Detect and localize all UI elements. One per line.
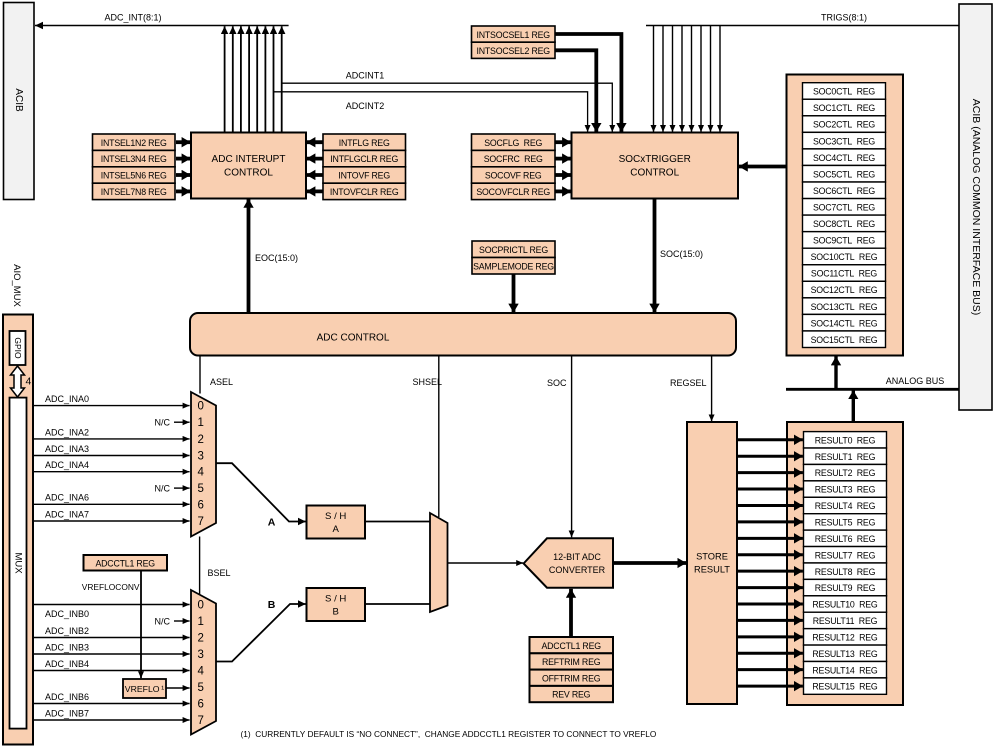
svg-text:ACIB: ACIB [13, 88, 24, 112]
wire mux A output to S/H A [216, 463, 306, 528]
register INTFLG [323, 134, 406, 150]
label VREFLOCONV [82, 582, 140, 592]
svg-text:7: 7 [198, 715, 204, 727]
wire converter to store result [613, 561, 686, 565]
register SOC6CTL [803, 182, 886, 199]
svg-text:ADC_INA2: ADC_INA2 [45, 427, 89, 437]
svg-text:SOCxTRIGGER: SOCxTRIGGER [619, 154, 691, 165]
register RESULT0 [804, 432, 887, 448]
svg-text:ADC_INT(8:1): ADC_INT(8:1) [104, 13, 161, 23]
svg-text:N/C: N/C [155, 616, 171, 626]
svg-text:CONVERTER: CONVERTER [549, 565, 606, 575]
svg-text:SOC10CTL REG: SOC10CTL REG [811, 252, 878, 262]
register SOC13CTL [803, 298, 886, 315]
wire INTSOCSEL2 to SOC trigger [555, 50, 596, 132]
wire S/H B to sample mux [365, 603, 430, 605]
wire VREFLOCONV to VREFLO [140, 571, 142, 678]
svg-text:SOC7CTL REG: SOC7CTL REG [813, 202, 875, 212]
svg-text:SOCOVF REG: SOCOVF REG [485, 171, 542, 181]
svg-text:1: 1 [198, 417, 204, 429]
register SOCOVF [472, 167, 556, 183]
wire N/C input [155, 418, 190, 428]
svg-text:SAMPLEMODE REG: SAMPLEMODE REG [473, 262, 554, 272]
svg-text:ADC_INA7: ADC_INA7 [45, 509, 89, 519]
register INTSEL7N8 [93, 183, 176, 199]
svg-text:RESULT2 REG: RESULT2 REG [815, 468, 876, 478]
svg-text:RESULT8 REG: RESULT8 REG [815, 567, 876, 577]
svg-text:0: 0 [198, 401, 204, 413]
register RESULT12 [804, 629, 887, 645]
svg-text:ADC_INB2: ADC_INB2 [45, 626, 89, 636]
ACIB right bus bar (analog common interface bus) [959, 4, 992, 410]
register SOC5CTL [803, 165, 886, 182]
register ADCCTL1 (VREFLOCONV) [84, 555, 168, 571]
svg-text:OFFTRIM REG: OFFTRIM REG [542, 673, 601, 683]
wires store result to RESULT regs [738, 440, 803, 686]
register RESULT1 [804, 448, 887, 464]
svg-text:ADC_INB4: ADC_INB4 [45, 659, 89, 669]
wire N/C input [155, 616, 190, 626]
svg-text:SOCFLG REG: SOCFLG REG [484, 138, 542, 148]
svg-text:RESULT5 REG: RESULT5 REG [815, 518, 876, 528]
register SOCPRICTL [472, 241, 555, 258]
svg-text:12-BIT ADC: 12-BIT ADC [553, 552, 601, 562]
wire mux B output to S/H B [216, 599, 306, 662]
register RESULT15 [804, 678, 887, 694]
register INTFLGCLR [323, 150, 406, 166]
svg-text:4: 4 [26, 376, 32, 388]
register INTSEL3N4 [93, 150, 176, 166]
wire SOC to converter [547, 356, 572, 538]
register SOC15CTL [803, 331, 886, 348]
svg-text:SOC8CTL REG: SOC8CTL REG [813, 219, 875, 229]
register INTSOCSEL1 [472, 26, 556, 42]
block STORE RESULT [687, 422, 737, 704]
svg-text:TRIGS(8:1): TRIGS(8:1) [821, 13, 867, 23]
svg-text:RESULT11 REG: RESULT11 REG [813, 616, 878, 626]
svg-text:SOC6CTL REG: SOC6CTL REG [813, 186, 875, 196]
wire analog bus up to SOCxCTL file [834, 356, 837, 389]
svg-text:5: 5 [198, 483, 204, 495]
svg-text:RESULT13 REG: RESULT13 REG [812, 649, 878, 659]
wire ADC_INT(8:1) [35, 13, 289, 26]
svg-text:ADC INTERUPT: ADC INTERUPT [212, 154, 286, 165]
wire N/C input [155, 484, 190, 494]
svg-text:ADC_INA6: ADC_INA6 [45, 493, 89, 503]
svg-text:6: 6 [198, 499, 204, 511]
wire ADC_INB2 input [34, 626, 190, 638]
register INTSEL1N2 [93, 134, 176, 150]
svg-text:SOC5CTL REG: SOC5CTL REG [813, 169, 875, 179]
svg-text:ADC_INA0: ADC_INA0 [45, 394, 89, 404]
register REFTRIM [530, 653, 614, 669]
svg-text:INTSEL3N4 REG: INTSEL3N4 REG [101, 154, 167, 164]
svg-text:(1) CURRENTLY DEFAULT IS “NO: (1) CURRENTLY DEFAULT IS “NO CONNECT”, C… [241, 729, 657, 739]
svg-text:ADC_INA4: ADC_INA4 [45, 460, 89, 470]
register SOCOVFCLR [472, 183, 556, 199]
register RESULT11 [804, 612, 887, 628]
svg-text:REV REG: REV REG [552, 690, 591, 700]
wire BSEL select [200, 537, 231, 595]
register SOCFLG [472, 134, 556, 150]
svg-text:INTFLG REG: INTFLG REG [339, 138, 390, 148]
svg-text:RESULT1 REG: RESULT1 REG [815, 452, 876, 462]
bidirectional arrow GPIO to MUX [11, 366, 32, 397]
svg-text:SOC(15:0): SOC(15:0) [660, 249, 703, 259]
svg-text:INTSEL1N2 REG: INTSEL1N2 REG [101, 138, 167, 148]
block S/H A [307, 506, 366, 539]
svg-text:SOC14CTL REG: SOC14CTL REG [811, 318, 878, 328]
register SOC12CTL [803, 281, 886, 298]
svg-text:CONTROL: CONTROL [630, 168, 679, 179]
svg-text:4: 4 [198, 666, 205, 678]
svg-text:ADC_INB7: ADC_INB7 [45, 708, 89, 718]
block ADC INTERUPT CONTROL [191, 133, 306, 199]
register INTSOCSEL2 [472, 42, 556, 58]
svg-text:7: 7 [198, 516, 204, 528]
svg-text:ADC CONTROL: ADC CONTROL [317, 333, 390, 344]
svg-text:REFTRIM REG: REFTRIM REG [542, 657, 601, 667]
wire SHSEL select [412, 356, 442, 518]
wire ADC_INB3 input [34, 642, 190, 654]
svg-text:ADCINT2: ADCINT2 [346, 101, 385, 111]
svg-text:2: 2 [198, 633, 204, 645]
register RESULT8 [804, 563, 887, 579]
register RESULT2 [804, 464, 887, 480]
wire SOCxCTL to SOC trigger control [739, 165, 786, 169]
wire RESULT file up to analog bus [852, 390, 855, 421]
register INTOVFCLR [323, 183, 406, 199]
svg-text:REGSEL: REGSEL [670, 378, 707, 388]
svg-text:S / H: S / H [325, 594, 346, 605]
svg-text:AIO_MUX: AIO_MUX [11, 264, 22, 307]
wire 8 interrupt lines to ADC_INT bus [225, 26, 282, 132]
register SOC3CTL [803, 132, 886, 149]
wire ADC_INA6 input [34, 493, 190, 505]
register SOC11CTL [803, 265, 886, 282]
wire S/H A to sample mux [365, 521, 430, 523]
register SOC4CTL [803, 149, 886, 166]
mux sample select (SHSEL) [430, 513, 448, 612]
svg-text:5: 5 [198, 682, 204, 694]
block S/H B [307, 588, 366, 621]
register INTOVF [323, 167, 406, 183]
wire sample mux to converter [448, 562, 524, 564]
svg-text:SOC11CTL REG: SOC11CTL REG [811, 269, 878, 279]
svg-text:STORE: STORE [696, 552, 728, 562]
svg-text:ADCCTL1 REG: ADCCTL1 REG [541, 641, 601, 651]
svg-text:ADC_INB6: ADC_INB6 [45, 692, 89, 702]
wire ADC_INA7 input [34, 509, 190, 521]
wire TRIGS(8:1) [646, 13, 959, 26]
svg-text:INTOVFCLR REG: INTOVFCLR REG [330, 187, 399, 197]
svg-text:RESULT14 REG: RESULT14 REG [812, 665, 878, 675]
register RESULT14 [804, 661, 887, 677]
svg-text:SOC15CTL REG: SOC15CTL REG [811, 335, 878, 345]
block ADC CONTROL [190, 313, 736, 356]
register RESULT3 [804, 481, 887, 497]
register OFFTRIM [530, 670, 614, 686]
svg-text:RESULT: RESULT [694, 565, 730, 575]
svg-text:ADCCTL1 REG: ADCCTL1 REG [95, 558, 155, 568]
svg-text:ACIB (ANALOG COMMON INTERFACE: ACIB (ANALOG COMMON INTERFACE BUS) [970, 99, 982, 315]
svg-text:SOCPRICTL REG: SOCPRICTL REG [479, 245, 548, 255]
svg-text:INTSOCSEL1 REG: INTSOCSEL1 REG [476, 30, 550, 40]
wire ADCINT2 [274, 92, 588, 132]
wire ANALOG BUS [786, 376, 959, 389]
svg-text:RESULT15 REG: RESULT15 REG [812, 682, 878, 692]
register SOC14CTL [803, 314, 886, 331]
svg-text:RESULT12 REG: RESULT12 REG [812, 632, 878, 642]
svg-text:SOC13CTL REG: SOC13CTL REG [811, 302, 878, 312]
svg-text:GPIO: GPIO [13, 337, 23, 359]
block GPIO [10, 331, 26, 365]
mux B (BSEL) [191, 590, 216, 735]
register REV [530, 686, 614, 702]
svg-text:N/C: N/C [155, 418, 171, 428]
svg-text:B: B [332, 607, 338, 618]
svg-text:SOC9CTL REG: SOC9CTL REG [813, 236, 875, 246]
wire ADCINT1 [282, 71, 613, 132]
register RESULT4 [804, 497, 887, 513]
register SOC7CTL [803, 199, 886, 216]
register SOC1CTL [803, 99, 886, 116]
svg-text:0: 0 [198, 600, 204, 612]
svg-text:3: 3 [198, 451, 204, 463]
register SAMPLEMODE [472, 258, 555, 275]
svg-text:A: A [268, 517, 276, 529]
svg-text:CONTROL: CONTROL [224, 168, 273, 179]
wire ADC_INA2 input [34, 427, 190, 439]
svg-text:SOC: SOC [547, 378, 567, 388]
svg-text:RESULT9 REG: RESULT9 REG [815, 583, 876, 593]
register SOCFRC [472, 150, 556, 166]
svg-text:INTSEL5N6 REG: INTSEL5N6 REG [101, 171, 167, 181]
register SOC9CTL [803, 232, 886, 249]
wire ADC_INB4 input [34, 659, 190, 671]
wire SOC(15:0) [655, 199, 704, 313]
svg-text:ADC_INB0: ADC_INB0 [45, 609, 89, 619]
wire trim regs to converter [569, 589, 573, 637]
wire ASEL select [200, 356, 233, 394]
svg-text:ASEL: ASEL [210, 377, 233, 387]
wires INTSEL regs to interrupt control [176, 142, 191, 191]
svg-text:A: A [332, 524, 339, 535]
svg-text:RESULT4 REG: RESULT4 REG [815, 501, 876, 511]
register ADCCTL1 [530, 637, 614, 653]
svg-text:SOC12CTL REG: SOC12CTL REG [811, 285, 878, 295]
svg-text:ANALOG BUS: ANALOG BUS [886, 376, 945, 386]
svg-text:EOC(15:0): EOC(15:0) [255, 253, 298, 263]
svg-text:RESULT0 REG: RESULT0 REG [815, 435, 876, 445]
svg-text:VREFLOCONV: VREFLOCONV [82, 582, 140, 592]
wires SOCFLG regs to SOC trigger control [556, 142, 572, 191]
svg-text:RESULT7 REG: RESULT7 REG [815, 550, 876, 560]
wire ADC_INB0 input [34, 605, 190, 619]
register SOC10CTL [803, 248, 886, 265]
wires INTFLG regs to interrupt control [306, 142, 322, 191]
block SOCxTRIGGER CONTROL [572, 133, 739, 199]
svg-text:RESULT6 REG: RESULT6 REG [815, 534, 876, 544]
wire REGSEL to store result [670, 356, 712, 422]
svg-text:SOCOVFCLR REG: SOCOVFCLR REG [476, 187, 550, 197]
wire ADC_INA0 input [34, 394, 190, 406]
svg-text:RESULT10 REG: RESULT10 REG [812, 600, 878, 610]
svg-text:INTSEL7N8 REG: INTSEL7N8 REG [101, 187, 167, 197]
register RESULT13 [804, 645, 887, 661]
block AIO_MUX container [3, 315, 33, 745]
svg-text:2: 2 [198, 434, 204, 446]
svg-text:MUX: MUX [12, 552, 23, 574]
wire INTSOCSEL1 to SOC trigger [555, 34, 621, 132]
block VREFLO [123, 679, 166, 698]
wire ADC_INA3 input [34, 444, 190, 456]
block RESULT register file container [787, 422, 903, 705]
svg-text:S / H: S / H [325, 511, 346, 522]
svg-text:VREFLO ¹: VREFLO ¹ [125, 684, 164, 694]
svg-text:SHSEL: SHSEL [412, 377, 442, 387]
svg-text:INTSOCSEL2 REG: INTSOCSEL2 REG [476, 46, 550, 56]
svg-text:ADCINT1: ADCINT1 [346, 71, 385, 81]
wires 8 trigger lines to SOC trigger control [654, 26, 721, 133]
svg-text:SOC3CTL REG: SOC3CTL REG [813, 136, 875, 146]
svg-text:BSEL: BSEL [208, 568, 231, 578]
svg-text:SOC2CTL REG: SOC2CTL REG [813, 120, 875, 130]
svg-text:RESULT3 REG: RESULT3 REG [815, 485, 876, 495]
svg-text:4: 4 [198, 467, 205, 479]
block SOCxCTL register file container [787, 75, 904, 356]
register INTSEL5N6 [93, 167, 176, 183]
svg-text:SOC1CTL REG: SOC1CTL REG [813, 103, 875, 113]
wire SAMPLEMODE to ADC control [512, 275, 516, 313]
svg-text:INTOVF REG: INTOVF REG [338, 171, 390, 181]
svg-text:6: 6 [198, 699, 204, 711]
register RESULT6 [804, 530, 887, 546]
svg-text:SOC0CTL REG: SOC0CTL REG [813, 87, 875, 97]
block 12-BIT ADC CONVERTER [524, 538, 613, 587]
svg-text:INTFLGCLR REG: INTFLGCLR REG [330, 154, 398, 164]
ACIB left bus bar [4, 3, 35, 200]
register RESULT9 [804, 579, 887, 595]
svg-text:B: B [268, 599, 276, 611]
block MUX [10, 398, 27, 729]
register SOC0CTL [803, 83, 886, 100]
svg-text:3: 3 [198, 649, 204, 661]
label AIO_MUX [11, 264, 22, 307]
register SOC8CTL [803, 215, 886, 232]
wire VREFLO to mux pin 5 [166, 687, 189, 689]
register SOC2CTL [803, 116, 886, 133]
svg-text:1: 1 [198, 616, 204, 628]
svg-text:SOC4CTL REG: SOC4CTL REG [813, 153, 875, 163]
register RESULT10 [804, 596, 887, 612]
wire ADC_INB7 input [34, 708, 190, 720]
wire ADC_INA4 input [34, 460, 190, 472]
svg-text:ADC_INB3: ADC_INB3 [45, 642, 89, 652]
svg-text:ADC_INA3: ADC_INA3 [45, 444, 89, 454]
register RESULT5 [804, 514, 887, 530]
mux A (ASEL) [191, 392, 216, 537]
svg-text:N/C: N/C [155, 484, 171, 494]
wire EOC(15:0) [249, 199, 299, 313]
register RESULT7 [804, 547, 887, 563]
wire ADC_INB6 input [34, 692, 190, 704]
footnote (1) [241, 729, 657, 739]
svg-text:SOCFRC REG: SOCFRC REG [484, 154, 543, 164]
